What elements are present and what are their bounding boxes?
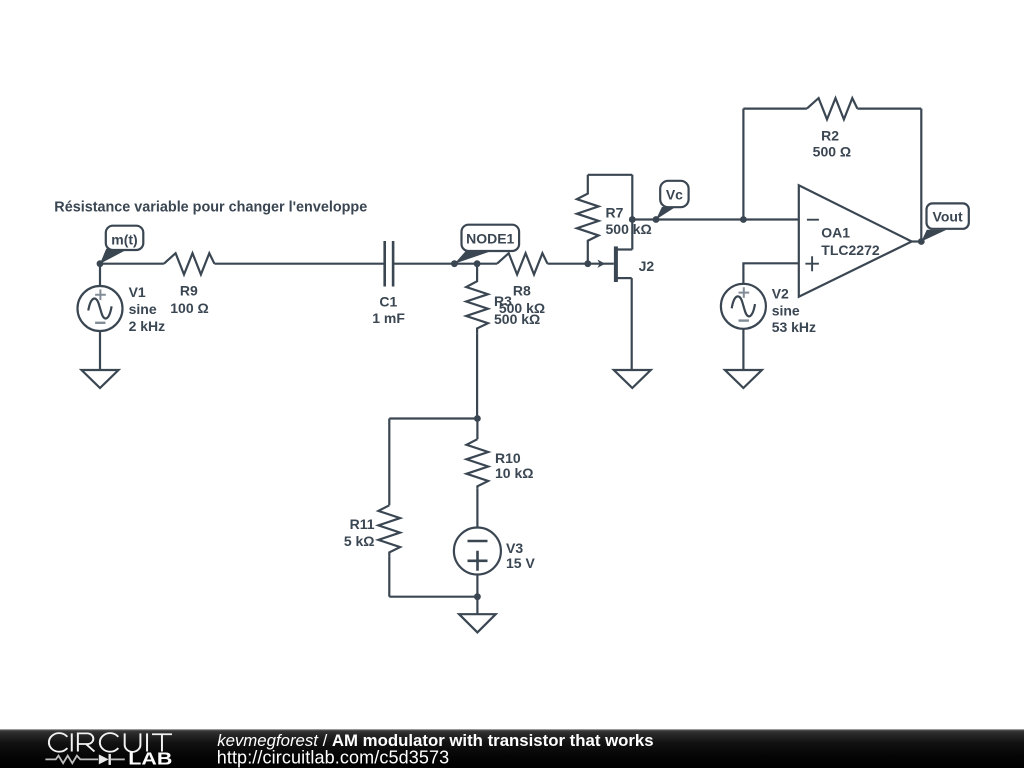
svg-text:500 kΩ: 500 kΩ <box>606 221 652 237</box>
svg-text:15 V: 15 V <box>506 555 535 571</box>
R7 label <box>606 205 652 238</box>
svg-text:R11: R11 <box>350 516 375 532</box>
junction NODE1-R3 <box>474 260 481 267</box>
resistor R9 <box>164 253 215 274</box>
wire J2 source down <box>631 278 633 370</box>
logo CIRCUIT <box>49 733 172 752</box>
node Vout flag <box>921 203 969 241</box>
junction V1 node <box>97 260 104 267</box>
wire node B horizontals <box>389 417 477 419</box>
C1 label <box>372 293 405 326</box>
transistor J2 <box>616 246 632 282</box>
resistor R8 <box>497 253 548 274</box>
svg-text:J2: J2 <box>639 258 655 274</box>
svg-text:5 kΩ: 5 kΩ <box>344 533 375 549</box>
R8 label <box>499 282 545 316</box>
svg-text:100 Ω: 100 Ω <box>170 300 208 316</box>
wire R10 to V3 <box>476 488 478 528</box>
op-amp OA1 <box>799 185 912 296</box>
svg-text:500 Ω: 500 Ω <box>813 143 851 159</box>
wire feedback right vertical <box>920 109 922 242</box>
wire feedback left vertical <box>742 109 744 220</box>
voltage source V3 <box>454 528 501 575</box>
wire R3 to node B <box>476 334 478 419</box>
ground (V2) <box>725 370 762 388</box>
wire V1 top <box>99 264 101 286</box>
resistor R11 <box>378 505 400 556</box>
node m(t) flag <box>100 226 143 264</box>
wire op-amp output <box>912 240 922 242</box>
junction gate node <box>584 260 591 267</box>
svg-text:Résistance variable pour chang: Résistance variable pour changer l'envel… <box>54 199 367 215</box>
wire V2 bottom <box>742 329 744 370</box>
junction bottom node <box>474 593 481 600</box>
wire bottom horizontal <box>389 596 477 598</box>
junction Vc anchor <box>653 216 660 223</box>
svg-text:R10: R10 <box>495 450 521 466</box>
svg-text:C1: C1 <box>379 293 397 309</box>
ground (V1) <box>82 370 119 388</box>
gate arrow <box>597 260 605 268</box>
wire feedback top right <box>857 107 921 109</box>
resistor R10 <box>467 439 489 488</box>
wire R11 top vertical <box>388 419 390 506</box>
OA1 label <box>821 225 880 258</box>
svg-text:2 kHz: 2 kHz <box>129 318 166 334</box>
R3 label <box>494 293 540 327</box>
wire R11 bottom <box>388 556 390 597</box>
svg-text:sine: sine <box>129 301 157 317</box>
svg-text:http://circuitlab.com/c5d3573: http://circuitlab.com/c5d3573 <box>217 748 450 768</box>
junction node B <box>474 415 481 422</box>
wire feedback top left <box>743 107 807 109</box>
wire node A to R9 <box>100 263 164 265</box>
capacitor C1 <box>385 241 393 287</box>
svg-text:53 kHz: 53 kHz <box>772 319 816 335</box>
voltage source V2 <box>721 284 766 329</box>
svg-text:R9: R9 <box>180 283 198 299</box>
junction feedback node <box>740 216 747 223</box>
footer bar <box>0 729 1024 768</box>
svg-text:500 kΩ: 500 kΩ <box>494 311 540 327</box>
logo resistor-diode <box>45 754 124 765</box>
svg-text:1 mF: 1 mF <box>372 310 405 326</box>
svg-text:TLC2272: TLC2272 <box>821 242 880 258</box>
wire drain vertical <box>631 175 633 250</box>
wire Vc net <box>632 218 799 220</box>
wire R7 top to drain line <box>588 174 633 176</box>
R9 label <box>170 283 208 317</box>
resistor R2 <box>807 98 858 119</box>
ground (J2) <box>614 370 651 388</box>
junction NODE1 <box>451 260 458 267</box>
svg-text:R7: R7 <box>606 205 624 221</box>
junction output node <box>918 238 925 245</box>
svg-text:R3: R3 <box>494 293 512 309</box>
svg-text:V3: V3 <box>506 540 523 556</box>
svg-text:sine: sine <box>772 302 800 318</box>
svg-text:NODE1: NODE1 <box>466 231 514 247</box>
svg-text:V2: V2 <box>772 286 789 302</box>
svg-text:10 kΩ: 10 kΩ <box>495 465 533 481</box>
R2 label <box>813 128 851 160</box>
ground (V3) <box>459 614 496 632</box>
V1 label <box>129 284 166 334</box>
svg-text:R8: R8 <box>513 282 531 298</box>
wire NODE1 to R8 <box>477 263 497 265</box>
svg-text:V1: V1 <box>129 284 146 300</box>
R11 label <box>344 516 375 549</box>
voltage source V1 <box>78 286 123 331</box>
node NODE1 flag <box>454 225 519 264</box>
V2 label <box>772 286 816 335</box>
V3 label <box>506 540 535 571</box>
svg-text:Vc: Vc <box>666 186 683 202</box>
resistor R7 (vertical) <box>577 175 599 264</box>
wire R10 top lead <box>476 419 478 440</box>
resistor R3 (vertical below NODE1) <box>466 264 488 334</box>
svg-text:Vout: Vout <box>933 209 963 225</box>
svg-text:R2: R2 <box>821 128 839 144</box>
wire R8 to gate node <box>548 263 614 265</box>
svg-text:m(t): m(t) <box>111 231 137 247</box>
wire R9 to C1 <box>214 263 384 265</box>
svg-text:OA1: OA1 <box>821 225 850 241</box>
wire V1 bottom <box>99 331 101 370</box>
R10 label <box>495 450 533 481</box>
node Vc flag <box>656 181 689 220</box>
junction drain-Vc <box>629 216 636 223</box>
svg-text:LAB: LAB <box>128 749 172 768</box>
wire V3 bottom <box>476 574 478 614</box>
wire C1 to NODE1 <box>393 263 477 265</box>
wire plus input <box>743 263 798 284</box>
